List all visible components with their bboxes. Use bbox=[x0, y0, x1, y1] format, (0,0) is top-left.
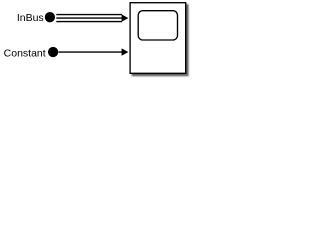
wire Constant bbox=[59, 51, 123, 53]
bus wire (3 lines) bbox=[56, 15, 122, 22]
port dot InBus bbox=[45, 12, 55, 22]
arrowhead Constant bbox=[122, 48, 129, 55]
block body bbox=[130, 3, 186, 74]
block icon rounded rect bbox=[138, 11, 177, 40]
svg-text:Constant: Constant bbox=[4, 47, 46, 59]
background bbox=[0, 0, 196, 80]
arrowhead bus bbox=[122, 14, 129, 21]
svg-text:InBus: InBus bbox=[17, 12, 44, 24]
port dot Constant bbox=[48, 47, 58, 57]
